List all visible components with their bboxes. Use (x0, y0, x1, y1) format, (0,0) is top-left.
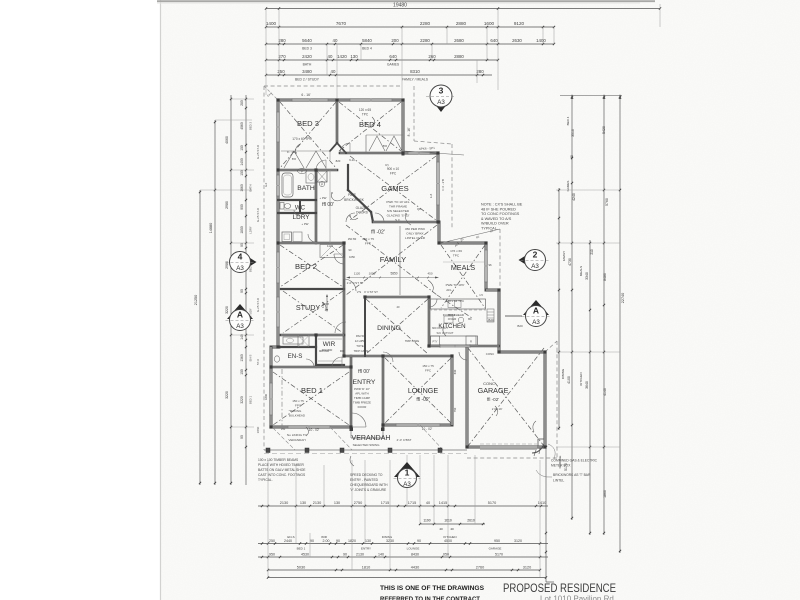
garage door dashes (480, 443, 537, 445)
svg-text:8430: 8430 (411, 552, 419, 556)
svg-text:2130: 2130 (280, 501, 288, 505)
right vertical dim to bottom (545, 430, 547, 582)
svg-text:A3: A3 (403, 481, 411, 488)
svg-text:5170: 5170 (495, 552, 503, 556)
svg-text:7670: 7670 (336, 21, 347, 26)
window (277, 112, 279, 142)
svg-text:1600: 1600 (484, 21, 495, 26)
svg-text:FPC: FPC (365, 242, 372, 246)
svg-text:FAMILY: FAMILY (562, 251, 566, 261)
wall bed1 top (271, 366, 351, 369)
exterior wall lounge right (451, 356, 454, 425)
svg-text:ffl 00': ffl 00' (358, 369, 370, 375)
svg-text:6 - 16': 6 - 16' (301, 93, 311, 97)
svg-text:1400: 1400 (536, 38, 546, 43)
svg-text:40: 40 (570, 155, 574, 159)
svg-text:Lot 1010 Pavilion Rd: Lot 1010 Pavilion Rd (540, 595, 614, 600)
svg-text:3120: 3120 (523, 565, 531, 569)
wall hall right / family left (343, 243, 346, 356)
svg-text:900 800: 900 800 (319, 349, 330, 353)
svg-text:1800: 1800 (264, 394, 268, 400)
svg-text:PAC'D: PAC'D (356, 334, 364, 338)
svg-text:Qb: Qb (417, 207, 421, 211)
door arc bed1 (332, 357, 342, 367)
svg-text:K'CUPBD: K'CUPBD (443, 313, 456, 317)
svg-text:A3: A3 (437, 99, 445, 106)
svg-text:5840: 5840 (362, 38, 372, 43)
verandah posts (266, 448, 270, 453)
svg-text:ffl -02': ffl -02' (371, 230, 385, 236)
svg-text:150: 150 (240, 369, 244, 375)
wall games bay diagonal (348, 190, 371, 212)
svg-text:BED 1: BED 1 (249, 396, 253, 405)
svg-text:130: 130 (300, 501, 306, 505)
entry door arc (352, 413, 366, 427)
exterior wall bed4 right (402, 100, 405, 154)
svg-text:TPC: TPC (453, 254, 460, 258)
wc toilet (280, 203, 284, 210)
svg-text:G-25 ST-D: G-25 ST-D (256, 207, 260, 222)
svg-text:4060: 4060 (240, 122, 244, 130)
wall ens top is left jog extension (279, 346, 316, 348)
door arc wir/hall (335, 322, 346, 333)
svg-text:40: 40 (439, 527, 443, 531)
wall dining bottom / lounge top (344, 355, 452, 358)
ceiling diagonal (280, 245, 343, 287)
window (270, 383, 272, 415)
svg-text:10 - 02': 10 - 02' (309, 428, 320, 432)
entry porch posts (350, 428, 354, 432)
svg-text:1190: 1190 (423, 519, 430, 523)
svg-text:1410: 1410 (538, 501, 546, 505)
svg-text:B'R: B'R (383, 144, 387, 148)
svg-text:SPEED DECKING TO: SPEED DECKING TO (350, 473, 383, 477)
svg-text:A3: A3 (236, 265, 244, 272)
svg-text:A3: A3 (532, 319, 540, 326)
kitchen sink (448, 301, 461, 308)
svg-text:450 PER PWK: 450 PER PWK (405, 227, 426, 231)
svg-text:DINING: DINING (377, 325, 401, 332)
svg-text:GAMES: GAMES (387, 63, 400, 67)
bed3 robe doors (284, 151, 304, 168)
svg-text:2610: 2610 (467, 519, 475, 523)
svg-text:1400: 1400 (266, 21, 277, 26)
svg-text:A: A (237, 310, 243, 320)
svg-text:TRIP CARE: TRIP CARE (405, 339, 419, 343)
svg-text:WIR: WIR (323, 341, 336, 348)
svg-text:4730: 4730 (568, 258, 572, 266)
wall entry left (350, 356, 353, 427)
exterior wall left lower (270, 347, 273, 427)
svg-text:BED 3: BED 3 (249, 122, 253, 131)
svg-text:KITCHEN: KITCHEN (579, 372, 583, 385)
svg-text:750: 750 (453, 407, 457, 412)
svg-text:FPC: FPC (295, 404, 302, 408)
svg-text:2440: 2440 (284, 539, 292, 543)
svg-text:S/N SELECTED: S/N SELECTED (387, 209, 410, 213)
dimension line (266, 74, 492, 76)
dimension line (266, 26, 554, 28)
svg-text:3340: 3340 (585, 272, 589, 280)
svg-text:+ PW: + PW (320, 196, 327, 200)
svg-text:LINTEL OVER: LINTEL OVER (405, 236, 426, 240)
svg-text:LINTEL: LINTEL (553, 479, 564, 483)
svg-text:FAMILY: FAMILY (380, 255, 406, 264)
ceiling diagonal (273, 372, 349, 425)
svg-text:LOUNGE: LOUNGE (407, 547, 420, 551)
wall bed3 bottom (278, 169, 337, 172)
svg-text:ENTRY: ENTRY (353, 379, 376, 386)
svg-text:FPC: FPC (390, 172, 397, 176)
wall bed2/study (281, 288, 344, 290)
svg-text:1660: 1660 (240, 184, 244, 192)
door arc bed3 (316, 160, 326, 170)
svg-text:640: 640 (453, 369, 457, 374)
svg-text:TPC: TPC (362, 113, 369, 117)
svg-text:5420: 5420 (602, 126, 606, 134)
gutter line bed4-games (404, 151, 464, 155)
svg-text:150 l50: 150 l50 (348, 237, 357, 241)
exterior wall garage right (544, 352, 547, 447)
svg-text:G-25 ST-D: G-25 ST-D (256, 297, 260, 312)
exterior wall games top (403, 152, 438, 155)
wall dining left (364, 297, 366, 356)
door arcs games glazed doors (346, 213, 355, 222)
svg-text:A3: A3 (531, 263, 539, 270)
svg-text:280: 280 (240, 100, 244, 106)
svg-text:40: 40 (331, 69, 336, 74)
dimension line (266, 59, 498, 61)
svg-text:3640: 3640 (585, 381, 589, 389)
svg-text:CONC: CONC (483, 381, 495, 386)
svg-text:150 x 75: 150 x 75 (422, 364, 434, 368)
svg-text:260: 260 (428, 54, 436, 59)
svg-text:100 x 100 TIMBER BEAMS: 100 x 100 TIMBER BEAMS (258, 458, 299, 462)
window (350, 99, 392, 101)
meals interior dim (443, 261, 484, 263)
top block extension lines (265, 9, 267, 96)
ceiling diagonal (468, 348, 544, 446)
svg-text:4530: 4530 (301, 552, 309, 556)
window (396, 424, 440, 426)
svg-text:STUDY: STUDY (296, 303, 321, 312)
wall bath/wc (278, 199, 316, 201)
svg-text:150 x 75: 150 x 75 (292, 399, 304, 403)
exterior wall top (278, 99, 403, 102)
door arc ens (306, 359, 314, 367)
svg-text:P: P (321, 183, 323, 187)
small arrowheads on leaders (331, 192, 332, 193)
svg-text:1360: 1360 (240, 354, 244, 362)
ceiling diagonal (280, 102, 336, 168)
wall wir left (315, 335, 317, 367)
svg-text:2280: 2280 (420, 38, 430, 43)
svg-text:LDRY: LDRY (249, 226, 253, 234)
svg-text:5170: 5170 (488, 501, 496, 505)
svg-text:A3: A3 (236, 323, 244, 330)
svg-text:950: 950 (494, 539, 500, 543)
laundry trough (282, 232, 292, 242)
svg-text:VERANDAH: VERANDAH (352, 435, 391, 442)
svg-text:R): R) (385, 163, 388, 167)
svg-text:270: 270 (278, 54, 286, 59)
svg-text:90: 90 (240, 435, 244, 439)
exterior wall lounge bottom (384, 424, 452, 427)
svg-text:THIS IS ONE OF THE DRAWINGS: THIS IS ONE OF THE DRAWINGS (380, 585, 485, 592)
window (440, 345, 470, 347)
ens shower (298, 336, 309, 347)
svg-text:3: 3 (439, 86, 444, 96)
svg-text:640: 640 (389, 54, 397, 59)
svg-text:BED 1: BED 1 (297, 547, 306, 551)
kitchen shelf ladder (487, 311, 494, 313)
svg-text:DOOR: DOOR (358, 405, 367, 409)
svg-text:B'R: B'R (292, 157, 296, 161)
bottom dim row 2 (420, 523, 485, 525)
svg-text:BULKHEAD: BULKHEAD (289, 414, 306, 418)
svg-text:150: 150 (240, 145, 244, 151)
ceiling diagonal (339, 102, 401, 151)
wall family/dining (365, 296, 429, 299)
svg-text:2: 2 (533, 250, 538, 260)
svg-text:250: 250 (269, 539, 275, 543)
wall wir bottom (316, 364, 344, 366)
svg-text:176 x 66: 176 x 66 (450, 249, 462, 253)
svg-text:DOORS: DOORS (356, 211, 368, 215)
svg-text:140: 140 (378, 552, 384, 556)
svg-text:130: 130 (350, 54, 358, 59)
ceiling diagonal (339, 102, 401, 151)
svg-text:1400: 1400 (240, 158, 244, 166)
svg-text:1050: 1050 (349, 255, 355, 259)
dimension line (268, 569, 540, 571)
svg-text:No LINING TO: No LINING TO (287, 433, 308, 437)
svg-text:9 - 16': 9 - 16' (287, 150, 296, 154)
laundry appliance (293, 232, 302, 242)
svg-text:4'-0' C'BST: 4'-0' C'BST (397, 438, 412, 442)
verandah edge (264, 449, 467, 451)
svg-text:2750: 2750 (354, 501, 362, 505)
svg-text:2.00: 2.00 (323, 539, 330, 543)
ceiling diagonal (346, 225, 437, 295)
svg-text:90: 90 (240, 289, 244, 293)
ceiling diagonal (283, 291, 343, 333)
bed4 robe doors (369, 136, 385, 151)
ceiling diagonal (385, 358, 451, 423)
svg-text:BATH: BATH (249, 184, 253, 191)
svg-text:14680: 14680 (209, 223, 213, 234)
right dim line 22740 (619, 95, 621, 553)
wall bed3/bed4 divider (336, 100, 339, 143)
svg-text:WC: WC (295, 205, 306, 212)
eave corner diagonal top-left (264, 86, 279, 101)
svg-text:21250: 21250 (194, 295, 198, 306)
ceiling diagonal (366, 299, 428, 354)
svg-text:1+5: 1+5 (429, 193, 433, 198)
bath vanity (306, 171, 316, 183)
svg-text:950: 950 (269, 552, 275, 556)
raking bulkhead dash line bed1 (281, 369, 283, 426)
svg-text:12 HPW: 12 HPW (355, 339, 366, 343)
svg-text:19480: 19480 (393, 3, 407, 9)
svg-text:4430: 4430 (411, 565, 419, 569)
kitchen lower bench (431, 336, 478, 345)
marker circle 4/A3 (249, 257, 257, 267)
right top connector (560, 95, 622, 97)
ceiling diagonal (346, 225, 437, 295)
svg-text:450: 450 (427, 272, 432, 276)
gutter diagonal to meals corner (441, 229, 500, 243)
svg-text:G-25 ST-D: G-25 ST-D (256, 144, 260, 159)
exterior wall meals step (486, 289, 499, 292)
svg-text:A: A (533, 306, 539, 316)
svg-text:COMBINED GAS & ELECTRIC: COMBINED GAS & ELECTRIC (551, 459, 598, 463)
svg-text:VERANDAH: VERANDAH (288, 438, 305, 442)
svg-text:CHEQUERBOARD WITH: CHEQUERBOARD WITH (350, 483, 388, 487)
svg-text:280: 280 (278, 38, 286, 43)
left dim line 14680 (214, 120, 216, 485)
svg-text:EN-S: EN-S (249, 355, 253, 362)
kitchen bulkhead dashed (429, 309, 486, 311)
garage door line (480, 446, 537, 448)
svg-text:1420: 1420 (337, 54, 347, 59)
marker circle 3/A3 (436, 106, 446, 113)
svg-text:2130: 2130 (356, 552, 364, 556)
svg-text:CAST INTO CONC. FOOTINGS: CAST INTO CONC. FOOTINGS (258, 473, 306, 477)
svg-text:130: 130 (365, 539, 371, 543)
exterior wall garage bottom (467, 446, 545, 449)
svg-text:1'-6 - 2'B: 1'-6 - 2'B (441, 179, 445, 191)
svg-text:PTY: PTY (432, 340, 437, 344)
svg-text:1810: 1810 (362, 565, 370, 569)
svg-text:2680: 2680 (454, 38, 464, 43)
svg-text:1860: 1860 (256, 426, 260, 433)
left dim line inner (230, 95, 232, 485)
ens vanity (283, 337, 303, 344)
circled fixture letter P (298, 168, 307, 173)
left dim line detail (245, 95, 247, 485)
svg-text:METER BOX: METER BOX (551, 464, 571, 468)
ceiling diagonal (366, 299, 428, 354)
wall bed2 top (278, 242, 344, 245)
svg-text:90: 90 (343, 552, 347, 556)
svg-text:GLAZED: GLAZED (356, 206, 369, 210)
svg-text:REFERRED TO IN THE CONTRACT: REFERRED TO IN THE CONTRACT (380, 596, 480, 600)
ens wc (274, 356, 279, 362)
bath tub (282, 173, 293, 197)
study dim arrow (326, 295, 328, 311)
svg-text:PWR 'D' 10'': PWR 'D' 10'' (354, 387, 370, 391)
svg-text:2630: 2630 (512, 38, 522, 43)
svg-text:R: R (470, 340, 472, 344)
svg-text:2880: 2880 (454, 54, 464, 59)
left block connector ticks (231, 98, 254, 100)
bottom block extension lines (267, 460, 269, 577)
svg-text:MEALS: MEALS (579, 266, 583, 276)
door arc ldry (308, 234, 316, 242)
svg-text:GARAGE: GARAGE (478, 386, 509, 395)
svg-text:120 x 65: 120 x 65 (359, 108, 371, 112)
svg-text:SELECTED SWING: SELECTED SWING (353, 443, 381, 447)
page left edge (160, 0, 162, 600)
svg-text:+ PW: + PW (302, 222, 309, 226)
wall entry right / lounge left (382, 356, 385, 427)
exterior wall garage top (499, 351, 545, 354)
kitchen pantry (431, 336, 440, 345)
right dim line b (571, 95, 573, 520)
svg-text:PWE TO 10'6': PWE TO 10'6' (446, 283, 465, 287)
entry porch lines (350, 427, 352, 438)
svg-text:THR FRAME: THR FRAME (389, 205, 407, 209)
exterior wall meals right (485, 243, 488, 290)
marker circle 2/A3 (519, 255, 527, 265)
ceiling diagonal (441, 245, 485, 308)
svg-text:1860: 1860 (603, 490, 607, 498)
svg-text:ENTRY - PAINTED: ENTRY - PAINTED (350, 478, 379, 482)
svg-text:5640: 5640 (302, 38, 312, 43)
window (437, 162, 439, 205)
kitchen marks (444, 316, 453, 323)
svg-text:2130: 2130 (313, 501, 321, 505)
svg-text:3480: 3480 (302, 69, 312, 74)
dimension line (258, 556, 548, 558)
wir shelves (318, 338, 342, 340)
svg-text:1050: 1050 (369, 272, 376, 276)
svg-text:150 x 75: 150 x 75 (362, 237, 374, 241)
svg-text:BED 4: BED 4 (566, 116, 570, 125)
svg-text:EN-S: EN-S (288, 353, 303, 360)
svg-text:90: 90 (310, 539, 314, 543)
svg-text:APL WITH: APL WITH (355, 392, 369, 396)
svg-text:GARAGE: GARAGE (489, 547, 502, 551)
verandah rafter diagonals (273, 428, 295, 450)
dimension line (258, 505, 548, 507)
dimension line (266, 8, 660, 10)
ceiling diagonal (385, 358, 451, 423)
svg-text:250: 250 (277, 69, 285, 74)
svg-text:2420: 2420 (302, 54, 312, 59)
svg-text:900 x 10: 900 x 10 (387, 167, 399, 171)
svg-text:TYPICAL.: TYPICAL. (258, 478, 273, 482)
svg-text:GAMES: GAMES (381, 184, 408, 193)
wall games bottom (373, 221, 438, 224)
leader squiggles (331, 193, 345, 201)
wall bath corridor (315, 170, 318, 243)
svg-text:130: 130 (334, 501, 340, 505)
svg-text:LOUNGE: LOUNGE (408, 386, 439, 395)
svg-text:4240: 4240 (572, 193, 576, 201)
wc cistern mark (284, 209, 296, 211)
svg-text:280: 280 (476, 69, 484, 74)
leader line meter box (548, 444, 555, 459)
svg-text:0' C'ST ST: 0' C'ST ST (364, 290, 378, 294)
svg-text:22740: 22740 (621, 293, 625, 304)
svg-text:4060: 4060 (225, 136, 229, 144)
scan top edge (157, 0, 655, 2)
svg-text:1'-0' C'ST ST: 1'-0' C'ST ST (347, 281, 364, 285)
dimension line (266, 43, 554, 45)
svg-text:9120: 9120 (514, 21, 525, 26)
svg-text:S/C CUTOUT: S/C CUTOUT (436, 331, 453, 335)
window (277, 297, 279, 327)
marker circle 1/A3 (394, 462, 420, 477)
wall wc/ldry (278, 212, 316, 214)
circled fixture letter P2 (319, 181, 324, 186)
svg-text:40: 40 (333, 38, 338, 43)
svg-text:LDRY: LDRY (293, 214, 311, 221)
svg-text:BED 3: BED 3 (297, 119, 319, 128)
svg-text:48 IF SHE POURED: 48 IF SHE POURED (481, 207, 516, 211)
